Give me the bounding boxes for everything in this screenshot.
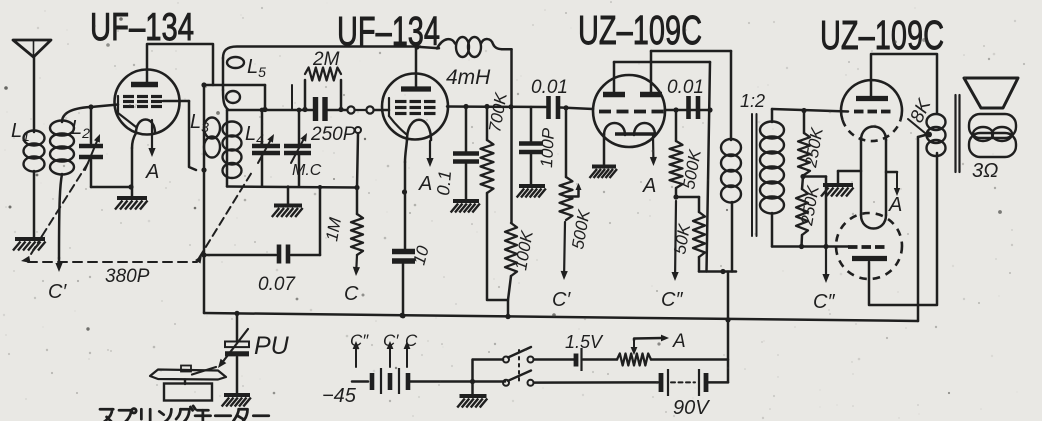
svg-text:PU: PU: [254, 332, 290, 360]
svg-text:0.01: 0.01: [531, 77, 568, 98]
svg-text:C″: C″: [350, 331, 369, 350]
svg-text:4mH: 4mH: [446, 66, 491, 89]
svg-text:C′: C′: [552, 289, 571, 311]
svg-text:250P: 250P: [310, 124, 356, 145]
svg-text:C″: C″: [813, 291, 835, 313]
svg-text:C″: C″: [661, 289, 683, 311]
svg-text:A: A: [888, 194, 902, 216]
svg-text:100P: 100P: [537, 127, 558, 168]
svg-text:M.C: M.C: [292, 162, 322, 179]
svg-text:C′: C′: [383, 331, 399, 350]
svg-text:A: A: [672, 331, 686, 352]
svg-text:0.1: 0.1: [433, 170, 455, 197]
svg-text:C′: C′: [48, 281, 67, 303]
svg-text:2M: 2M: [312, 49, 340, 70]
svg-text:A: A: [418, 173, 432, 195]
svg-text:90V: 90V: [673, 397, 710, 419]
svg-text:C: C: [405, 331, 418, 350]
svg-text:−45: −45: [322, 385, 357, 407]
svg-text:0.01: 0.01: [667, 77, 704, 98]
svg-text:380P: 380P: [105, 266, 150, 287]
svg-text:0.07: 0.07: [258, 274, 296, 295]
svg-text:UF–134: UF–134: [90, 6, 194, 49]
svg-text:3Ω: 3Ω: [972, 160, 998, 182]
svg-text:UZ–109C: UZ–109C: [578, 7, 702, 53]
svg-text:1.5V: 1.5V: [565, 332, 604, 352]
svg-text:UZ–109C: UZ–109C: [820, 12, 944, 58]
svg-text:1:2: 1:2: [740, 91, 765, 111]
svg-text:A: A: [642, 175, 656, 197]
svg-text:C: C: [344, 283, 359, 305]
svg-text:A: A: [145, 161, 159, 183]
